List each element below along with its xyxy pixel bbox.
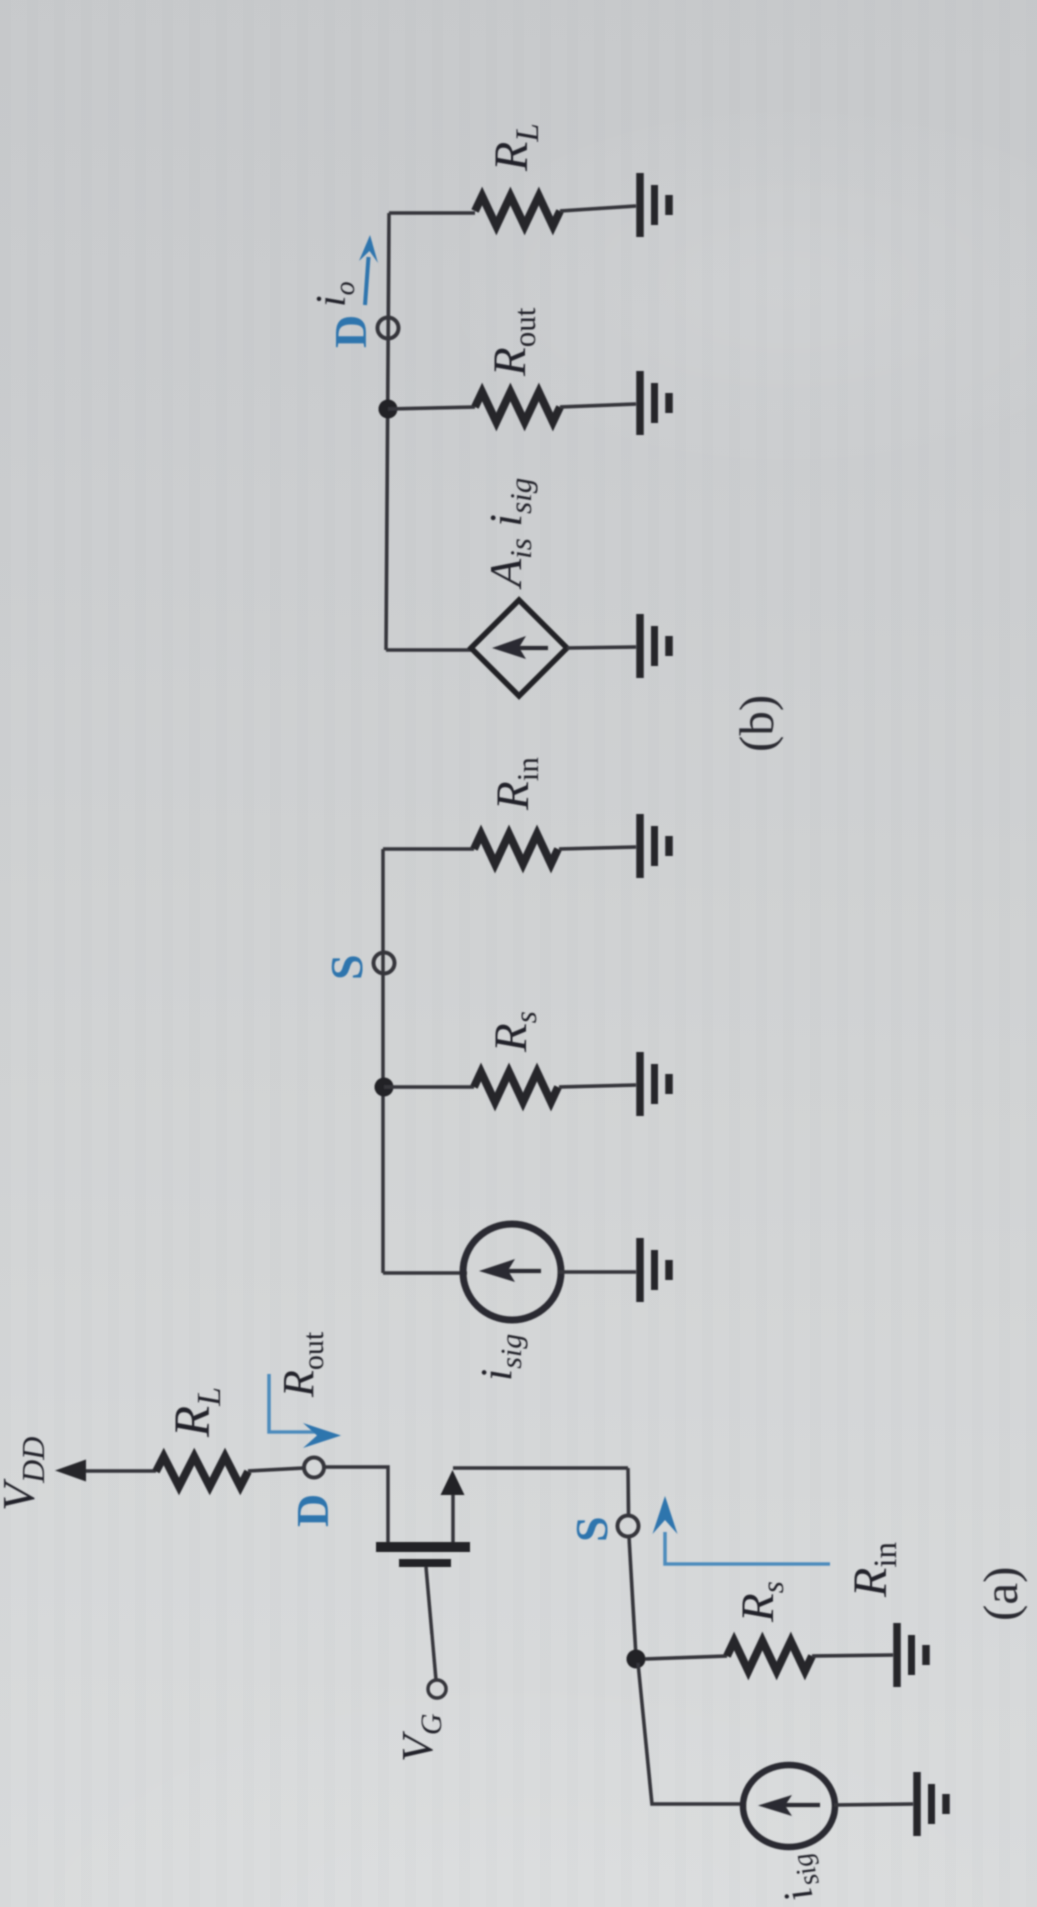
svg-text:Rin: Rin <box>844 1542 904 1598</box>
wire bus right corner to RL (b) <box>389 211 475 215</box>
resistor Rin (b) <box>474 834 558 864</box>
svg-text:isig: isig <box>472 1334 528 1381</box>
ground isig (a) <box>917 1772 946 1836</box>
svg-text:(a): (a) <box>973 1567 1028 1621</box>
svg-text:Rs: Rs <box>732 1581 790 1623</box>
wire junction to Rs (a) <box>645 1656 727 1659</box>
svg-text:D: D <box>325 315 376 348</box>
wire Rs to ground (a) <box>812 1655 893 1656</box>
node S (a) open circle <box>618 1516 639 1537</box>
resistor RL (a) <box>156 1457 248 1487</box>
svg-text:io: io <box>309 281 361 307</box>
svg-text:VG: VG <box>393 1713 448 1762</box>
wire RL to D node <box>248 1468 304 1471</box>
svg-text:Rin: Rin <box>487 757 545 811</box>
svg-text:RL: RL <box>485 123 546 172</box>
svg-text:Rs: Rs <box>485 1011 543 1053</box>
node D (a) open circle <box>304 1458 324 1478</box>
wire RL (b) to ground <box>560 206 636 211</box>
ground Rout (b) <box>640 371 669 435</box>
svg-text:RL: RL <box>165 1387 228 1438</box>
transistor Q channel bar <box>376 1542 470 1552</box>
ground RL (b) <box>640 173 669 237</box>
current source isig (b) <box>463 1224 561 1320</box>
transistor source lead with arrow <box>441 1470 465 1542</box>
svg-text:S: S <box>321 954 372 980</box>
junction dot (a) <box>627 1650 646 1669</box>
wire source to S node <box>453 1466 628 1470</box>
Rin pointer (a) <box>653 1496 831 1564</box>
terminal VG open circle <box>428 1680 446 1698</box>
svg-text:(b): (b) <box>729 695 784 752</box>
resistor Rout (b) <box>475 392 560 422</box>
wire Rs (b) to ground <box>559 1085 636 1087</box>
junction dot Rout (b) <box>379 400 398 419</box>
svg-text:Rout: Rout <box>484 307 542 377</box>
wire isig to ground (a) <box>834 1804 913 1805</box>
svg-text:Rout: Rout <box>274 1331 330 1398</box>
wire junction to Rs (b) <box>384 1085 474 1089</box>
ground dependent source <box>640 614 669 678</box>
current source isig (a) <box>743 1765 835 1847</box>
svg-text:S: S <box>566 1516 617 1542</box>
wire Rout (b) to ground <box>560 404 636 407</box>
wire S run right segment <box>626 1468 630 1515</box>
wire input bus <box>381 849 385 1273</box>
power VDD arrow <box>55 1460 156 1482</box>
wire bus left corner to isig (b) <box>383 1271 467 1275</box>
svg-text:isig: isig <box>765 1850 830 1907</box>
Rout pointer (a) <box>269 1374 341 1448</box>
wire dependent source to ground <box>567 647 636 648</box>
wire bus right corner to Rin (b) <box>383 847 474 851</box>
current io arrow <box>359 235 378 305</box>
wire D node to drain <box>324 1467 388 1542</box>
wire bus to dependent source <box>386 648 471 652</box>
svg-text:VDD: VDD <box>0 1437 51 1511</box>
node S (b) open circle <box>374 953 395 974</box>
wire Rin (b) to ground <box>559 847 636 849</box>
wire junction to Rout (b) <box>388 407 475 409</box>
resistor Rs (a) <box>727 1641 812 1671</box>
wire output bus <box>386 213 389 650</box>
ground isig (b) <box>640 1238 669 1302</box>
resistor Rs (b) <box>474 1072 558 1102</box>
svg-text:Ais isig: Ais isig <box>480 478 538 590</box>
node D (b) open circle <box>378 318 399 339</box>
ground Rs (b) <box>640 1052 669 1116</box>
transistor Q gate bar <box>399 1559 451 1567</box>
wire S run to junction <box>629 1537 636 1657</box>
wire isig (b) lower <box>558 1270 636 1274</box>
wire junction to isig (a) <box>638 1663 745 1804</box>
ground Rin (b) <box>640 814 669 878</box>
wire gate to VG <box>426 1567 436 1680</box>
ground Rs (a) <box>897 1623 926 1687</box>
dependent source diamond Ais isig <box>471 600 567 696</box>
svg-text:D: D <box>287 1494 338 1527</box>
junction dot Rs (b) <box>375 1078 394 1097</box>
resistor RL (b) <box>475 196 560 226</box>
